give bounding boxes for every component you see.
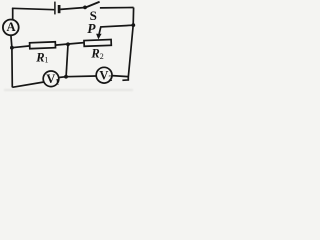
node junction dot right wire / slider bbox=[131, 23, 135, 27]
battery B1 short thick plate bbox=[58, 5, 61, 13]
wire middle row R1 to R2 bbox=[55, 43, 84, 46]
switch S pivot dot bbox=[83, 6, 87, 10]
svg-text:R1: R1 bbox=[35, 50, 48, 64]
wire top left segment bbox=[12, 8, 54, 9]
wire middle row left (junction to R1) bbox=[12, 46, 30, 48]
voltmeter V1 circle bbox=[43, 71, 59, 87]
wire junction to V2 bbox=[66, 75, 96, 78]
wire top-left corner and ammeter stem bbox=[12, 8, 14, 19]
scan smudge bottom bbox=[4, 89, 133, 91]
node junction dot middle row R1-R2 bbox=[66, 42, 70, 46]
wire voltmeter branch vertical bbox=[66, 44, 68, 76]
switch S blade bbox=[85, 2, 100, 8]
node junction dot bottom row bbox=[64, 75, 68, 79]
ammeter A circle bbox=[3, 20, 19, 36]
wire right vertical bbox=[122, 8, 133, 81]
wire switch to top-right corner bbox=[100, 7, 134, 9]
wire V2 right to right vertical bbox=[112, 76, 128, 77]
wire bottom-left rising to V1 bbox=[12, 82, 44, 87]
resistor R1 box bbox=[30, 42, 56, 49]
potentiometer slider arrowhead bbox=[96, 34, 102, 40]
svg-text:A: A bbox=[6, 20, 15, 34]
node junction dot left vertical / middle row bbox=[10, 46, 14, 50]
svg-text:P: P bbox=[87, 21, 96, 36]
voltmeter V2 circle bbox=[96, 67, 112, 83]
resistor R2 box bbox=[84, 39, 111, 46]
wire left vertical bbox=[11, 35, 12, 87]
wire V1 right to junction bbox=[59, 76, 66, 79]
battery B1 long plate bbox=[54, 2, 56, 15]
wire slider horizontal bbox=[99, 25, 133, 34]
svg-text:R2: R2 bbox=[90, 47, 103, 61]
wire battery to switch bbox=[60, 8, 85, 10]
